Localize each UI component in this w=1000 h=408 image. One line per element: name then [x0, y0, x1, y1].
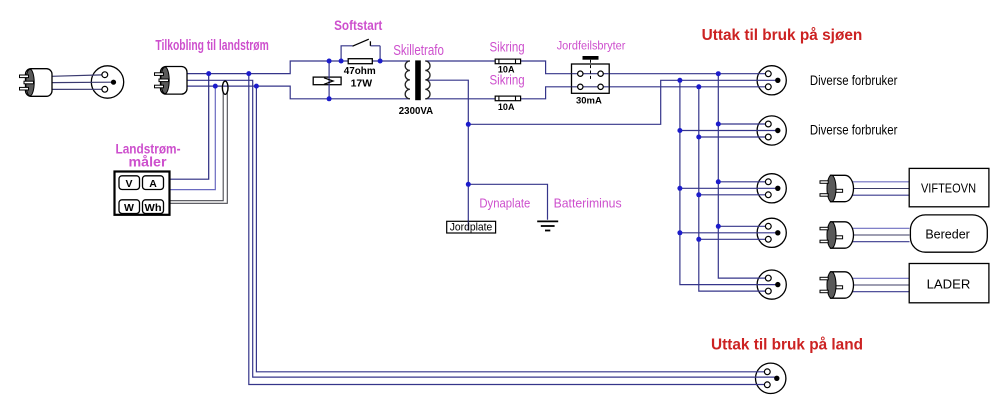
wire L tap outlet X2 [718, 123, 765, 125]
label Sikring 2 [490, 72, 525, 87]
wire cord plug to VIFTEOVN bottom [852, 194, 910, 196]
svg-text:Batteriminus: Batteriminus [554, 195, 622, 210]
outlet X4 body circle [757, 218, 786, 247]
wire cord plug to LADER bottom [852, 291, 910, 293]
outlet X3 body circle [757, 174, 786, 203]
junction node (341.1,61) [339, 59, 344, 64]
svg-text:LADER: LADER [927, 276, 971, 291]
socket J1 pins [102, 72, 116, 92]
transformer T1 Skilletrafo [405, 60, 430, 100]
junction node (256.4,86.1) [254, 84, 259, 89]
junction node (679.9,130.5) [677, 128, 682, 133]
label Diverse forbruker 1 [810, 73, 898, 88]
svg-text:10A: 10A [498, 102, 515, 113]
wire relay coil K1 connection L-N [328, 61, 330, 99]
label 47ohm [344, 65, 376, 77]
wire A meter wire [170, 86, 216, 190]
wire switch S1 posts [341, 46, 380, 61]
svg-text:Sikring: Sikring [490, 40, 525, 55]
junction node (718.3,73.7) [716, 71, 721, 76]
junction node (468.3,124.3) [466, 122, 471, 127]
junction node (698.8,137) [696, 135, 701, 140]
label 2300VA [399, 105, 434, 117]
wire N distribution riser [699, 87, 766, 291]
junction node (329.1,98.8) [327, 96, 332, 101]
junction node (718.3,181.8) [716, 179, 721, 184]
label 10A fuse2 [498, 102, 515, 113]
outlet X6 (land) body circle [756, 363, 786, 393]
svg-text:30mA: 30mA [576, 95, 602, 106]
plug P5 lader (appliance 2-pin) [820, 272, 854, 298]
wire N feed RCD to outlet X1 [609, 86, 765, 88]
plug P2 boat inlet (3-pin male) [155, 67, 188, 95]
wire earth branch to sea outlets [468, 80, 775, 124]
outlet X2 body circle [757, 116, 786, 145]
wire PE tap outlet X3 [680, 187, 776, 189]
label Uttak til bruk på land [711, 335, 863, 353]
junction node (679.9,188.3) [677, 186, 682, 191]
plug P3 vifteovn (appliance 2-pin) [820, 175, 853, 201]
wire RCD internal path L [572, 73, 610, 75]
wire P1-J1 top [52, 75, 103, 76]
junction node (698.8,86.8) [696, 84, 701, 89]
wire PE tap outlet X2 [680, 130, 776, 132]
wire cord plug to Bereder bottom [852, 241, 910, 243]
svg-text:Dynaplate: Dynaplate [479, 195, 530, 210]
svg-text:Wh: Wh [145, 203, 162, 214]
outlet X6 (land) pins [764, 369, 779, 388]
junction node (329.1,61) [327, 59, 332, 64]
wire cord plug to VIFTEOVN top [852, 181, 910, 183]
svg-text:10A: 10A [498, 65, 515, 76]
label Softstart [334, 18, 383, 33]
wire secondary bottom to fuse F2 to RCD [425, 87, 571, 99]
wire L shore (plug P2 to softstart and transformer) [187, 61, 410, 74]
svg-text:Softstart: Softstart [334, 18, 383, 33]
switch S1 blade (relay contact) [353, 39, 371, 46]
current transformer loop for meter [222, 81, 228, 94]
fuse F2 10A [495, 96, 520, 101]
wire RCD internal path N [572, 86, 610, 88]
plug P1 shore cord (3-pin male) [20, 69, 53, 97]
junction node (248.8,73.6) [246, 71, 251, 76]
junction node (718.3,124) [716, 122, 721, 127]
svg-text:Jordplate: Jordplate [450, 222, 493, 234]
label 30mA [576, 95, 602, 106]
label Uttak til bruk på sjøen [702, 26, 863, 44]
box LADER [909, 264, 989, 303]
wire L branch to land outlet bottom pin [249, 74, 766, 385]
outlet X5 body circle [757, 270, 786, 299]
label Jordfeilsbryter [557, 41, 626, 53]
svg-text:17W: 17W [351, 77, 373, 89]
meter M1 Landstrøm-måler [115, 172, 170, 215]
wire cord plug to LADER mid [852, 284, 910, 286]
wire N shore (plug P2 to softstart bottom rail and transformer) [187, 86, 410, 99]
outlet X4 pins [765, 223, 780, 242]
svg-text:Skilletrafo: Skilletrafo [393, 43, 444, 59]
label Landstrøm- [116, 141, 181, 157]
box Bereder [910, 215, 987, 252]
wire N tap outlet X3 [699, 194, 766, 196]
junction node (380.1,61) [378, 59, 383, 64]
svg-text:47ohm: 47ohm [344, 65, 376, 77]
wire PE tap outlet X4 [680, 232, 776, 234]
label 10A fuse1 [498, 65, 515, 76]
wire L tap outlet X3 [718, 181, 765, 183]
wire N branch to land outlet top pin [256, 86, 765, 372]
label Skilletrafo [393, 43, 444, 59]
plug P4 bereder (appliance 2-pin) [820, 222, 853, 248]
label Dynaplate [479, 195, 530, 210]
wire earth branch to Batteriminus ground [468, 184, 547, 220]
svg-text:VIFTEOVN: VIFTEOVN [921, 181, 976, 195]
wire PE distribution riser [680, 80, 776, 284]
RCD U1 Jordfeilsbryter 30mA [572, 56, 610, 93]
relay coil K1 body [313, 77, 341, 85]
svg-text:Uttak til bruk på sjøen: Uttak til bruk på sjøen [702, 26, 863, 44]
svg-text:2300VA: 2300VA [399, 105, 434, 117]
wire cord plug to LADER top [852, 277, 910, 279]
junction node (698.8,239.3) [696, 237, 701, 242]
wire L tap outlet X4 [718, 225, 765, 227]
outlet X5 pins [765, 275, 780, 294]
resistor R1 47ohm 17W [348, 59, 372, 64]
ground symbol (Batteriminus) [537, 221, 558, 230]
junction node (468.3,184.3) [466, 182, 471, 187]
wire secondary centre tap (earth) [427, 80, 469, 230]
wire cord plug to Bereder mid [852, 234, 910, 236]
outlet X3 pins [765, 179, 780, 198]
junction node (215.3,86.1) [213, 84, 218, 89]
box VIFTEOVN [909, 168, 989, 206]
wire Wh meter wire (from CT loop) [170, 93, 228, 204]
svg-text:Diverse forbruker: Diverse forbruker [810, 73, 898, 88]
relay coil K1 arrow [324, 78, 333, 85]
junction node (679.9,232.8) [677, 230, 682, 235]
wire W meter wire (from CT loop) [170, 93, 224, 201]
svg-text:Diverse forbruker: Diverse forbruker [810, 122, 898, 137]
wire PE shore (plug P2 down to land outlet) [187, 80, 775, 377]
wire V meter wire [170, 74, 209, 180]
svg-text:Jordfeilsbryter: Jordfeilsbryter [557, 41, 626, 53]
wire cord plug to VIFTEOVN mid [852, 188, 910, 190]
outlet X1 pins [765, 71, 780, 90]
svg-text:V: V [125, 178, 132, 190]
socket J1 shore-cord connector body [91, 66, 123, 98]
wire cord plug to Bereder top [852, 227, 910, 229]
label måler [129, 154, 168, 170]
wire L distribution riser [718, 74, 765, 278]
outlet X1 body circle [757, 66, 786, 95]
wire P1-J1 bottom [52, 88, 103, 90]
junction node (718.3,226.3) [716, 224, 721, 229]
label Batteriminus [554, 195, 622, 210]
wire N tap outlet X4 [699, 238, 766, 240]
wire secondary top to fuse F1 to RCD [425, 61, 571, 74]
svg-text:W: W [124, 202, 134, 214]
svg-text:måler: måler [129, 154, 168, 170]
fuse F1 10A [495, 59, 520, 64]
wire P1-J1 mid [52, 81, 112, 83]
svg-text:A: A [149, 178, 157, 190]
junction node (208.7,73.6) [206, 71, 211, 76]
label Tilkobling til landstrøm [155, 37, 268, 54]
junction node (698.8,194.8) [696, 192, 701, 197]
svg-text:Uttak til bruk på land: Uttak til bruk på land [711, 335, 863, 353]
wire L feed RCD to outlet X1 [609, 73, 765, 75]
svg-text:Tilkobling til landstrøm: Tilkobling til landstrøm [155, 37, 268, 54]
Jordplate electrode box [447, 221, 496, 233]
svg-text:Bereder: Bereder [925, 226, 970, 241]
label 17W [351, 77, 373, 89]
junction node (679.9,80.3) [677, 78, 682, 83]
label Diverse forbruker 2 [810, 122, 898, 137]
outlet X2 pins [765, 121, 780, 140]
label Sikring 1 [490, 40, 525, 55]
wire N tap outlet X2 [699, 136, 766, 138]
